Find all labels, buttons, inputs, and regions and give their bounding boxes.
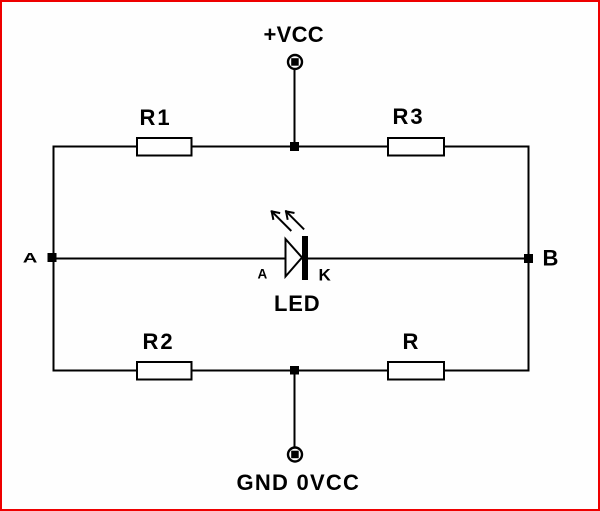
svg-text:A: A [258, 267, 268, 282]
svg-text:B: B [543, 246, 559, 271]
wire top rail [54, 146, 529, 148]
node B junction [524, 254, 533, 263]
resistor R1 [137, 138, 192, 156]
svg-text:+VCC: +VCC [264, 22, 325, 47]
wire middle A-B through LED [54, 258, 529, 260]
svg-text:A: A [23, 249, 38, 265]
resistor R3 [388, 138, 444, 156]
node A junction [48, 253, 57, 262]
wire right rail (node B side) [528, 146, 530, 372]
LED D1 [272, 211, 308, 280]
terminal +VCC [288, 55, 302, 69]
node junction top center [290, 142, 299, 151]
svg-text:GND 0VCC: GND 0VCC [237, 470, 361, 495]
terminal GND [288, 448, 302, 462]
svg-text:K: K [319, 266, 332, 285]
svg-text:LED: LED [274, 291, 320, 316]
svg-text:R3: R3 [393, 104, 425, 129]
wire +VCC stem [294, 70, 296, 147]
resistor R2 [137, 362, 192, 380]
LED light arrow 2 [286, 211, 303, 228]
wire GND stem [294, 371, 296, 448]
wire bottom rail [54, 370, 529, 372]
LED anode triangle [286, 239, 303, 277]
svg-text:R: R [403, 329, 419, 354]
svg-text:R1: R1 [140, 105, 172, 130]
wire left rail (node A side) [53, 146, 55, 372]
LED light arrow 1 [272, 211, 291, 230]
LED cathode bar [302, 236, 308, 280]
resistor R [388, 362, 444, 380]
node junction bottom center [290, 366, 299, 375]
svg-text:R2: R2 [143, 329, 175, 354]
